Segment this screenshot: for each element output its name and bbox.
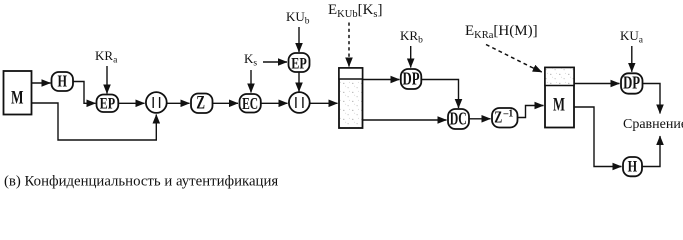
wire M1 feedback to concat1 (32, 103, 157, 140)
op DC (symmetric decrypt) (448, 109, 469, 130)
svg-text:(в) Конфиденциальность и аутен: (в) Конфиденциальность и аутентификация (4, 174, 278, 190)
dashed pointer EKRa to M2 block (486, 45, 542, 73)
wire Ks to EP2 (263, 61, 287, 63)
wire M2 to DP2 (574, 83, 620, 85)
op EP1 (encrypt with KRa) (97, 95, 119, 113)
svg-text:–1: –1 (503, 108, 514, 120)
svg-text:KRa: KRa (95, 48, 118, 66)
wire DC to Zinv (469, 118, 491, 120)
wire ciphertext to DP1 (363, 79, 400, 81)
op DP2 (verify signature) (621, 72, 643, 93)
svg-text:M: M (553, 95, 565, 116)
svg-text:Z: Z (494, 108, 502, 127)
op Z-1 (decompress) (492, 108, 518, 128)
svg-text:H: H (628, 159, 638, 176)
box M1 (source message) (4, 71, 32, 115)
op Z (compress) (191, 93, 213, 114)
op EP2 (encrypt Ks with KUb) (289, 53, 310, 72)
wire Z to EC (213, 102, 239, 104)
op DP1 (decrypt with KRb) (401, 69, 422, 89)
svg-text:DC: DC (450, 109, 467, 129)
svg-text:H: H (57, 71, 67, 90)
wire EC to concat2 (261, 102, 288, 104)
svg-text:Z: Z (196, 93, 205, 114)
wire concat2 to ciphertext block (310, 102, 338, 104)
svg-text:M: M (11, 88, 24, 109)
wire Ks to EC (250, 70, 252, 93)
wire KUb to EP2 (298, 27, 300, 52)
wire DP1 to DC (421, 80, 458, 109)
wire DP2 to compare (643, 84, 661, 114)
wire M1 to H1 (32, 82, 51, 84)
svg-text:KUb: KUb (286, 9, 310, 27)
svg-text:KRb: KRb (400, 28, 423, 46)
svg-text:Ks: Ks (244, 51, 257, 69)
svg-text:EP: EP (100, 95, 116, 112)
svg-text:KUa: KUa (620, 28, 644, 46)
wire EP2 to concat2 (298, 73, 300, 92)
wire KRb to DP1 (410, 46, 412, 68)
wire Zinv to M2 (518, 106, 544, 118)
hash H2 (623, 157, 642, 176)
concat junction 2 (289, 92, 310, 113)
wire ciphertext to DC (363, 119, 447, 121)
svg-text:DP: DP (403, 69, 420, 89)
svg-text:Сравнение: Сравнение (623, 117, 683, 132)
svg-text:EKUb[Ks]: EKUb[Ks] (328, 2, 383, 20)
wire M2 to H2 (574, 107, 622, 167)
wire EP1 to concat1 (118, 102, 144, 104)
dashed pointer EKUb[Ks] to ciphertext (348, 23, 350, 67)
hash H1 (52, 71, 74, 91)
wire concat1 to Z (167, 102, 190, 104)
wire KRa to EP1 (106, 66, 108, 94)
svg-text:DP: DP (623, 72, 640, 92)
ciphertext block (transmitted) (339, 68, 363, 128)
concat junction 1 (146, 92, 167, 113)
received block M2 (545, 68, 574, 128)
wire H2 to compare (642, 136, 660, 167)
op EC (symmetric encrypt) (240, 94, 261, 113)
svg-text:EKRa[H(M)]: EKRa[H(M)] (465, 23, 538, 41)
svg-text:EP: EP (291, 55, 307, 72)
wire KUa to DP2 (631, 46, 633, 72)
wire H1 to EP1 (73, 82, 96, 104)
svg-text:EC: EC (242, 94, 258, 113)
